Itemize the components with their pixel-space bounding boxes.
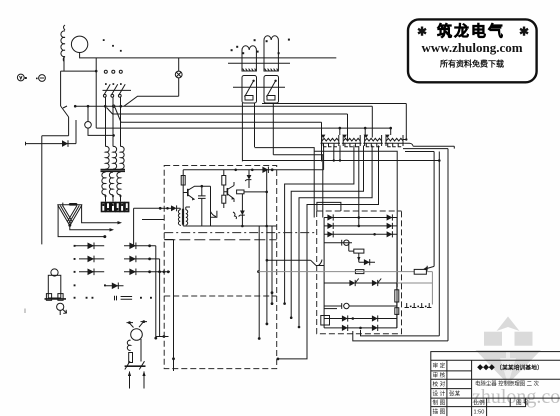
bus line L1a <box>75 106 372 137</box>
bus line L4 <box>96 127 391 129</box>
wire KM drops <box>242 103 273 161</box>
fan end dots <box>277 159 342 360</box>
resistor R2 <box>223 170 225 176</box>
wire fan fD <box>278 146 379 359</box>
small glyph Q4 <box>233 212 237 219</box>
reactor U3 <box>363 135 383 147</box>
aux contact to bus L2 <box>113 105 115 107</box>
small tick marks <box>115 296 117 301</box>
contactor KM1 coil <box>242 46 256 71</box>
capacitor row r8 <box>324 303 397 309</box>
wire node bus <box>95 58 97 128</box>
diode row r10 <box>324 317 397 331</box>
zener D2 <box>241 194 243 211</box>
regulating triangle TR <box>57 203 122 239</box>
wire <box>42 136 69 245</box>
svg-text:设 计: 设 计 <box>433 390 446 398</box>
wire from fuse to box <box>134 208 160 246</box>
vertical mid drop <box>164 240 173 372</box>
mechanical coupling dashed link <box>103 39 122 52</box>
meter branch circle <box>87 106 89 121</box>
diode row3 left <box>79 269 104 276</box>
svg-text:图 号: 图 号 <box>516 399 529 407</box>
node: main control junction <box>74 105 77 108</box>
svg-text:描 图: 描 图 <box>433 408 446 416</box>
dashed divider <box>164 295 277 297</box>
contact block KM1 <box>242 76 257 104</box>
mid rail down <box>210 186 212 226</box>
contact arm K0 <box>61 106 69 136</box>
resistor RP (right) <box>258 269 432 304</box>
right feeder steps <box>403 149 448 341</box>
small contact Q3 <box>211 211 217 218</box>
title block <box>431 352 560 416</box>
dashed box A <box>164 166 277 369</box>
reactor feeder wires <box>340 128 391 135</box>
wire mid knot <box>314 151 397 287</box>
capacitor <box>121 297 133 300</box>
wire fan fB <box>291 146 363 318</box>
generator G1 circle <box>71 36 87 52</box>
wire fan fA <box>285 146 354 304</box>
core <box>101 170 126 172</box>
amplifier circuit <box>142 146 324 372</box>
wire arrow row3 <box>58 205 103 237</box>
bus line L2 <box>107 108 348 141</box>
small box bottom-left <box>321 316 330 326</box>
transistor Q2 <box>224 182 235 202</box>
meter P2 <box>36 75 45 82</box>
links to box C <box>267 260 316 265</box>
terminal comb right <box>405 303 432 308</box>
bottom rail <box>183 225 276 227</box>
diode groups left <box>74 207 170 340</box>
svg-text:校 对: 校 对 <box>433 380 446 388</box>
svg-text:电除尘器 控制原理图 二 次: 电除尘器 控制原理图 二 次 <box>475 380 539 388</box>
wire w1 <box>255 148 315 218</box>
tacho motor bottom <box>125 320 147 388</box>
diode row r1 <box>324 214 397 220</box>
box C notch <box>317 202 341 211</box>
svg-text:◆◆◆ 〔某某培训基地〕: ◆◆◆ 〔某某培训基地〕 <box>476 364 542 372</box>
wire second phase <box>228 62 290 64</box>
diode V0 <box>26 120 77 144</box>
bus line L3 <box>115 108 322 162</box>
svg-text:www.zhulong.com: www.zhulong.com <box>421 40 522 55</box>
secondary leads with arrows <box>106 195 121 202</box>
diode row r2 <box>324 223 397 229</box>
wire w3 <box>242 160 439 162</box>
svg-text:筑龙电气: 筑龙电气 <box>436 22 505 40</box>
resistor R1 <box>181 176 185 186</box>
diode row1 left <box>75 243 104 250</box>
diode row r9 <box>324 315 397 321</box>
wire arrow row2 <box>70 225 110 230</box>
wire w2 <box>273 155 323 218</box>
output stubs down <box>259 226 272 339</box>
thyristor bridge in box C <box>316 214 432 331</box>
meter P1 <box>17 74 26 81</box>
diode row r3 <box>324 231 397 237</box>
breaker QF contacts (3-pole) <box>103 70 132 97</box>
arrow into resistor <box>427 266 434 269</box>
dashed line2 <box>164 239 276 241</box>
watermark top right <box>408 19 537 82</box>
fuse blocks <box>102 203 129 212</box>
left square <box>484 332 502 346</box>
node dots near contactors <box>231 39 290 55</box>
svg-text:✱: ✱ <box>519 25 529 39</box>
capacitor row r4 <box>324 240 352 246</box>
svg-text:审 定: 审 定 <box>433 362 446 370</box>
resistor row r6 <box>355 270 364 274</box>
transistor Q1 <box>183 186 210 200</box>
secondary windings <box>102 172 106 195</box>
inductor L1 (top-left supply coil) <box>61 25 65 71</box>
wire fan f6 <box>358 146 360 226</box>
diode top right <box>262 167 268 173</box>
wire <box>61 71 97 106</box>
contact block KM2 <box>264 76 279 104</box>
chain line <box>164 232 316 234</box>
liquid rheostat <box>45 269 67 315</box>
resistor R4 horizontal <box>237 190 244 194</box>
top rail <box>183 146 323 170</box>
side rails <box>324 218 397 328</box>
bottom right links <box>353 330 448 341</box>
saturable reactor row: 4 magnetic amplifier units <box>321 135 455 149</box>
reactor U1 <box>321 135 341 147</box>
terminal dot column <box>74 245 106 299</box>
reactor1 hook drops <box>334 146 340 161</box>
diode single mid <box>105 283 124 290</box>
3-phase transformer T1 <box>101 146 129 211</box>
diode row3 mid <box>124 269 170 276</box>
primary windings <box>106 146 110 169</box>
zener D1 <box>248 170 250 175</box>
left rail <box>182 170 184 226</box>
top kite <box>497 317 520 332</box>
right resistors vertical <box>396 283 398 328</box>
vertical collector wires <box>156 246 160 338</box>
reactor output step <box>403 140 454 147</box>
wire <box>80 53 337 58</box>
right square <box>515 332 533 346</box>
reactor U4 <box>385 135 405 147</box>
bus line L1b <box>262 104 406 140</box>
diode row2 left <box>79 256 104 263</box>
resistor R5 + diode <box>349 243 375 266</box>
reactor U2 <box>342 135 362 147</box>
svg-text:所有资料免费下载: 所有资料免费下载 <box>439 59 504 69</box>
svg-text:张某: 张某 <box>449 390 461 398</box>
contact at left edge <box>316 260 324 266</box>
stray tick <box>24 309 26 314</box>
right rail <box>266 170 268 226</box>
wires to transformer <box>106 97 121 146</box>
wire interlock <box>233 86 285 88</box>
lamp HL <box>120 58 183 108</box>
bottom diamond half <box>476 350 542 384</box>
resistor R3 <box>222 195 226 203</box>
svg-text:比例: 比例 <box>474 399 486 407</box>
svg-text:✱: ✱ <box>417 25 427 39</box>
thyristor row r7 <box>324 279 397 287</box>
capacitor C1 <box>198 186 206 226</box>
diode row2 mid <box>124 256 160 263</box>
wire arrow row1 <box>82 205 118 223</box>
input transformer <box>142 205 190 226</box>
dashed box C <box>317 211 402 334</box>
gray watermark logo <box>472 317 560 409</box>
wire fan fC <box>299 146 372 328</box>
diode row1 mid <box>124 243 156 250</box>
svg-text:制 图: 制 图 <box>433 399 446 407</box>
svg-text:审 核: 审 核 <box>433 371 446 379</box>
svg-text:1:50: 1:50 <box>474 410 485 416</box>
contactor KM2 coil <box>264 36 278 71</box>
